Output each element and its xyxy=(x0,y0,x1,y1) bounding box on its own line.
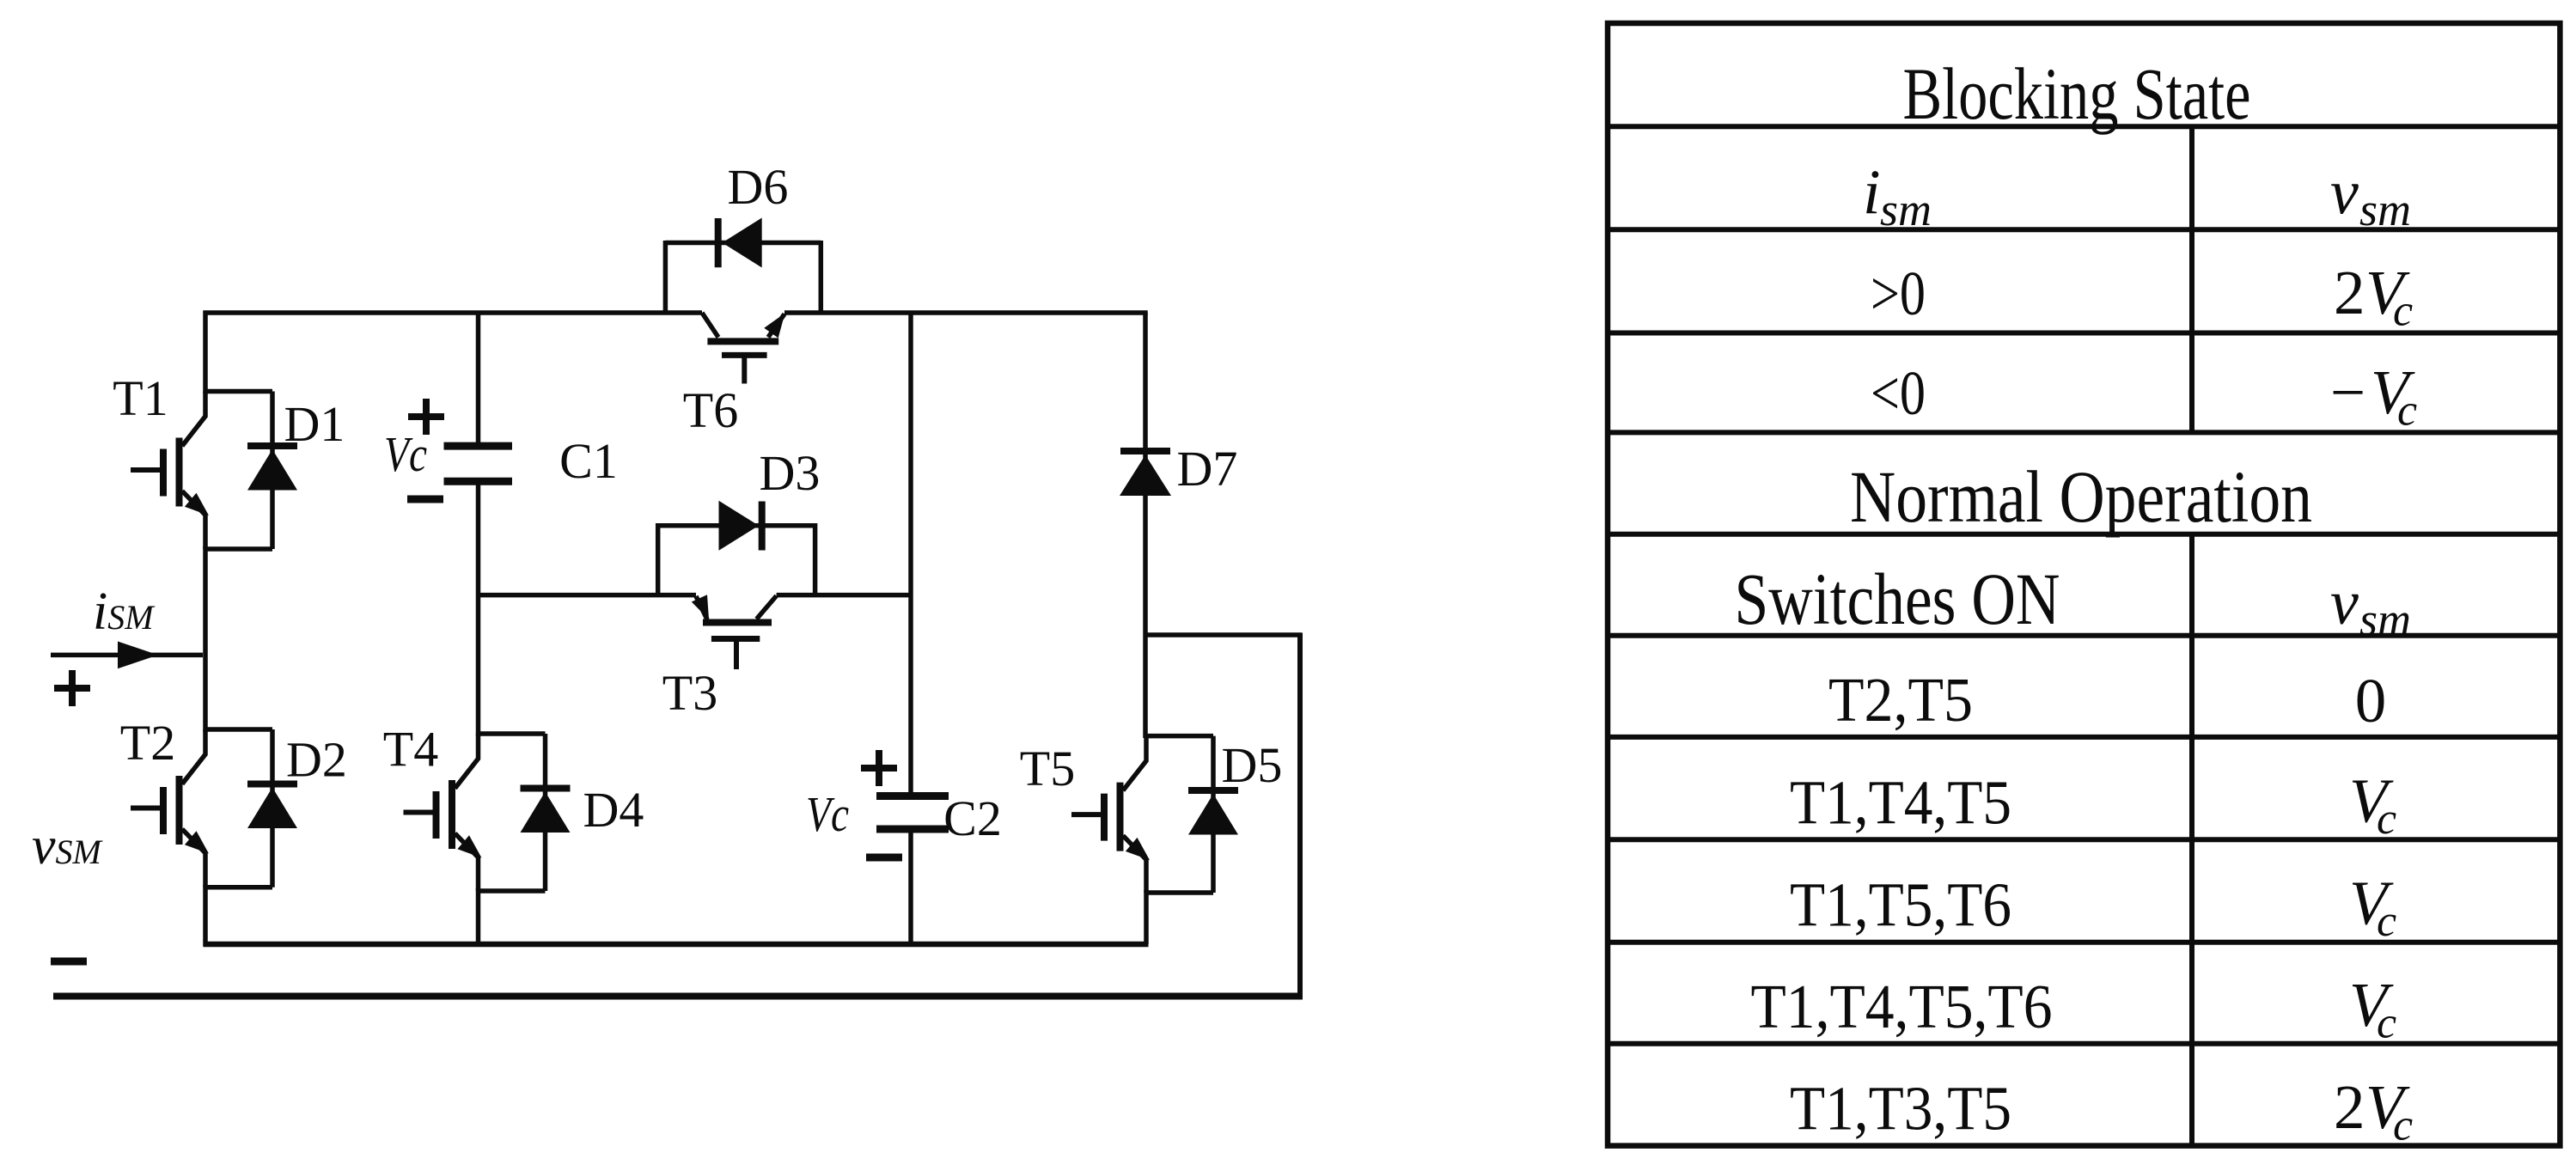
svg-text:T1,T3,T5: T1,T3,T5 xyxy=(1790,1074,2011,1144)
wire left vertical middle xyxy=(203,546,208,732)
svg-text:2Vc: 2Vc xyxy=(2334,258,2413,336)
wire top horizontal right segment xyxy=(784,310,1148,315)
capacitor C2 xyxy=(876,796,949,830)
svg-text:T1,T4,T5,T6: T1,T4,T5,T6 xyxy=(1751,972,2053,1041)
svg-text:D6: D6 xyxy=(728,159,789,215)
svg-text:vsm: vsm xyxy=(2330,568,2411,645)
wire junction horizontal to right vertical xyxy=(1145,632,1302,637)
svg-text:C2: C2 xyxy=(943,790,1002,846)
svg-text:C1: C1 xyxy=(559,433,618,489)
wire D7 branch xyxy=(1143,313,1148,738)
svg-text:T3: T3 xyxy=(662,665,717,721)
svg-text:>0: >0 xyxy=(1871,259,1926,328)
svg-text:Vc: Vc xyxy=(2349,765,2396,844)
label plus at C1 xyxy=(408,399,444,435)
diode D6 loop xyxy=(665,241,821,313)
svg-text:D7: D7 xyxy=(1177,441,1238,497)
diode D1 xyxy=(247,392,297,550)
node iSM input arrow xyxy=(51,642,203,669)
svg-text:T4: T4 xyxy=(383,722,438,778)
transistor T2 xyxy=(131,729,272,887)
svg-text:vSM: vSM xyxy=(32,817,104,875)
wire right outer vertical xyxy=(1297,633,1303,997)
diode D5 xyxy=(1188,736,1238,893)
svg-text:Vc: Vc xyxy=(806,786,849,842)
transistor T3 xyxy=(692,595,777,669)
wire top horizontal left segment xyxy=(204,310,703,315)
label plus at C2 xyxy=(861,750,897,786)
wire left vertical upper xyxy=(203,311,208,394)
capacitor C1 xyxy=(444,446,513,481)
diode D2 xyxy=(247,729,297,887)
svg-text:T1: T1 xyxy=(113,370,168,426)
svg-text:vsm: vsm xyxy=(2330,158,2411,235)
svg-text:2Vc: 2Vc xyxy=(2334,1072,2413,1150)
svg-text:<0: <0 xyxy=(1871,358,1926,428)
wire T4 bottom stub xyxy=(476,888,481,944)
svg-text:Normal Operation: Normal Operation xyxy=(1850,455,2312,538)
svg-text:T6: T6 xyxy=(683,382,738,438)
svg-text:D1: D1 xyxy=(284,396,345,452)
wire C1 branch lower xyxy=(476,485,481,736)
svg-text:D5: D5 xyxy=(1222,737,1283,793)
svg-text:Vc: Vc xyxy=(2349,869,2396,947)
transistor T5 xyxy=(1071,736,1213,893)
svg-text:Switches ON: Switches ON xyxy=(1735,558,2060,640)
transistor T6 xyxy=(702,313,785,384)
svg-text:D3: D3 xyxy=(760,445,821,501)
diode D4 xyxy=(521,734,571,891)
wire middle horizontal left segment xyxy=(479,593,697,598)
svg-text:T5: T5 xyxy=(1020,741,1075,796)
label minus at output xyxy=(51,958,87,966)
svg-text:iSM: iSM xyxy=(93,582,156,641)
diode D3 loop xyxy=(658,523,815,595)
svg-text:ism: ism xyxy=(1863,158,1932,235)
label minus at C1 xyxy=(407,496,443,503)
table grid xyxy=(1608,23,2560,1146)
diode D6 xyxy=(718,218,762,268)
svg-text:T1,T4,T5: T1,T4,T5 xyxy=(1790,767,2011,837)
svg-text:T2: T2 xyxy=(120,715,175,771)
svg-text:D2: D2 xyxy=(286,732,347,788)
wire middle horizontal right segment xyxy=(777,593,913,598)
wire C2 branch upper xyxy=(908,313,913,792)
diode D7 xyxy=(1120,451,1171,496)
wire T5 bottom stub xyxy=(1144,890,1149,944)
svg-text:D4: D4 xyxy=(583,782,644,838)
diode D3 xyxy=(719,501,762,551)
wire C2 branch lower xyxy=(908,833,913,944)
transistor T1 xyxy=(131,392,272,550)
transistor T4 xyxy=(404,734,546,891)
svg-text:Vc: Vc xyxy=(384,426,427,482)
wire bottom bridge xyxy=(204,942,1149,948)
wire C1 branch upper xyxy=(476,313,481,442)
wire left vertical lower xyxy=(203,885,208,947)
svg-text:T2,T5: T2,T5 xyxy=(1828,665,1973,735)
svg-text:0: 0 xyxy=(2355,666,2387,735)
label plus at input xyxy=(54,670,90,706)
wire bottom output xyxy=(53,993,1303,1000)
svg-text:−Vc: −Vc xyxy=(2330,357,2417,436)
svg-text:Blocking State: Blocking State xyxy=(1903,52,2251,135)
svg-text:Vc: Vc xyxy=(2349,970,2396,1048)
label minus at C2 xyxy=(866,854,902,862)
svg-text:T1,T5,T6: T1,T5,T6 xyxy=(1790,870,2011,940)
